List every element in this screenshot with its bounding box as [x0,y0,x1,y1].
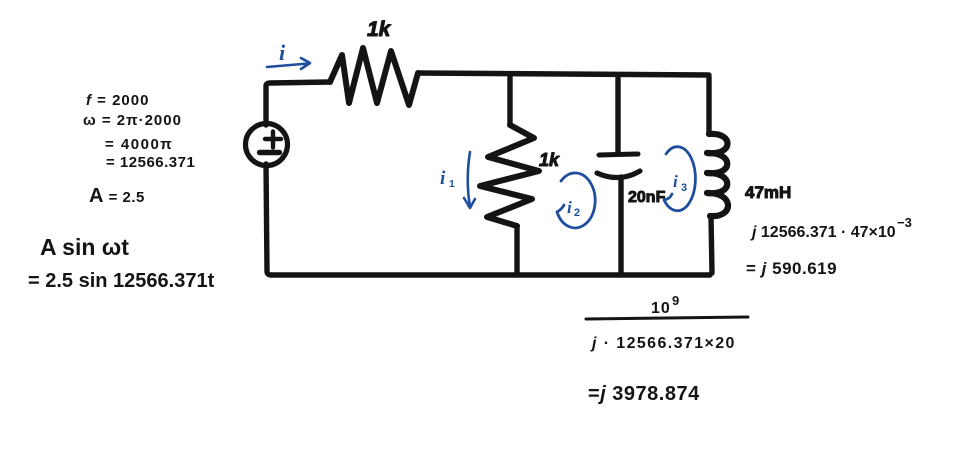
svg-text:= 12566.371: = 12566.371 [106,154,195,171]
wire source-top to resistor R1 [266,82,330,125]
svg-text:3: 3 [681,182,687,194]
svg-text:20nF: 20nF [628,189,666,206]
svg-text:= j 590.619: = j 590.619 [746,259,837,278]
voltage source V1 [246,124,288,166]
svg-text:A = 2.5: A = 2.5 [89,185,145,207]
svg-text:2: 2 [574,207,580,219]
mesh current i3 loop [664,147,695,211]
svg-text:47mH: 47mH [745,183,791,202]
svg-text:= 4000π: = 4000π [105,136,173,153]
resistor R1 (horizontal 1k) [330,48,418,105]
svg-text:ω = 2π·2000: ω = 2π·2000 [83,112,182,129]
svg-text:−3: −3 [897,215,912,230]
svg-text:i: i [279,40,286,65]
svg-text:= 2.5 sin 12566.371t: = 2.5 sin 12566.371t [28,270,215,292]
svg-text:f = 2000: f = 2000 [86,92,149,109]
wire top (resistor to top-right corner) [418,73,709,75]
mesh current i2 loop [557,173,595,228]
current label i with arrow [267,40,310,69]
fraction bar [586,317,748,319]
svg-text:9: 9 [672,293,679,308]
svg-text:1k: 1k [539,150,560,170]
svg-text:j · 12566.371×20: j · 12566.371×20 [590,335,736,352]
svg-text:1: 1 [449,178,455,190]
current label i1 with arrow [440,152,475,208]
svg-text:1k: 1k [367,18,392,41]
svg-text:i: i [440,168,446,189]
inductor L1 coil with stubs [707,77,728,273]
capacitor C1 with stubs [597,77,640,274]
wire left (source bottom to bottom-left corner) [266,164,271,275]
svg-text:i: i [567,198,572,217]
svg-text:j 12566.371 · 47×10: j 12566.371 · 47×10 [750,224,896,241]
svg-text:A sin ωt: A sin ωt [40,234,129,260]
wire bottom [271,272,710,277]
svg-text:=j 3978.874: =j 3978.874 [588,383,700,405]
svg-text:10: 10 [651,300,671,317]
svg-text:i: i [673,172,678,191]
resistor R2 (vertical 1k) with stubs [480,77,539,274]
